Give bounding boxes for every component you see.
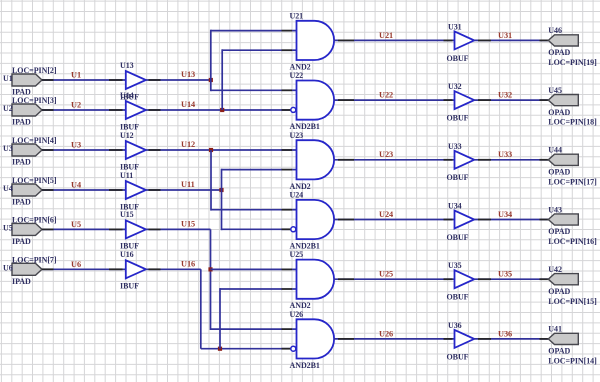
svg-text:IPAD: IPAD [12,277,31,286]
svg-text:OBUF: OBUF [447,173,469,182]
svg-text:U23: U23 [290,131,304,140]
svg-text:IPAD: IPAD [12,118,31,127]
svg-text:U11: U11 [120,171,133,180]
svg-text:OBUF: OBUF [447,233,469,242]
svg-text:U2: U2 [71,101,81,110]
svg-text:LOC=PIN[15]: LOC=PIN[15] [548,297,597,306]
svg-text:U31: U31 [498,31,512,40]
svg-text:LOC=PIN[2]: LOC=PIN[2] [12,66,57,75]
svg-text:IPAD: IPAD [12,158,31,167]
svg-text:OBUF: OBUF [447,54,469,63]
svg-text:AND2: AND2 [290,301,311,310]
svg-text:U21: U21 [290,11,304,20]
svg-text:U5: U5 [71,220,81,229]
svg-text:U23: U23 [379,150,393,159]
svg-text:U22: U22 [290,71,304,80]
svg-text:IBUF: IBUF [120,282,139,291]
svg-text:AND2B1: AND2B1 [290,361,320,370]
svg-text:U6: U6 [71,260,81,269]
svg-text:U13: U13 [120,61,134,70]
svg-text:LOC=PIN[7]: LOC=PIN[7] [12,256,57,265]
svg-text:U11: U11 [181,180,195,189]
svg-text:U2: U2 [3,104,13,113]
svg-text:U31: U31 [448,22,462,31]
svg-text:U45: U45 [548,86,562,95]
svg-text:U43: U43 [548,205,562,214]
svg-text:LOC=PIN[3]: LOC=PIN[3] [12,96,57,105]
svg-text:U33: U33 [448,142,462,151]
svg-text:LOC=PIN[18]: LOC=PIN[18] [548,118,597,127]
svg-text:U12: U12 [120,131,134,140]
svg-text:U21: U21 [379,31,393,40]
svg-text:LOC=PIN[17]: LOC=PIN[17] [548,177,597,186]
svg-text:U6: U6 [3,264,13,273]
svg-text:U3: U3 [71,141,81,150]
svg-text:U42: U42 [548,265,562,274]
svg-text:LOC=PIN[16]: LOC=PIN[16] [548,237,597,246]
svg-text:OPAD: OPAD [548,347,570,356]
svg-text:U3: U3 [3,144,13,153]
svg-text:AND2B1: AND2B1 [290,122,320,131]
svg-text:U15: U15 [181,219,195,228]
svg-text:U16: U16 [181,259,195,268]
svg-text:OBUF: OBUF [447,293,469,302]
svg-text:OBUF: OBUF [447,352,469,361]
svg-text:U26: U26 [379,329,393,338]
svg-text:U1: U1 [71,71,81,80]
svg-text:AND2: AND2 [290,62,311,71]
svg-text:LOC=PIN[5]: LOC=PIN[5] [12,176,57,185]
svg-text:IPAD: IPAD [12,237,31,246]
svg-text:U25: U25 [379,270,393,279]
svg-text:IPAD: IPAD [12,198,31,207]
svg-text:U15: U15 [120,210,134,219]
svg-text:OPAD: OPAD [548,108,570,117]
svg-text:OPAD: OPAD [548,227,570,236]
svg-text:AND2: AND2 [290,182,311,191]
svg-text:U36: U36 [498,329,512,338]
svg-text:U25: U25 [290,250,304,259]
svg-text:U44: U44 [548,146,562,155]
svg-text:U24: U24 [379,210,393,219]
svg-text:U26: U26 [290,310,304,319]
svg-text:U4: U4 [3,184,13,193]
svg-text:U14: U14 [120,91,134,100]
svg-text:U22: U22 [379,91,393,100]
svg-text:U32: U32 [448,82,462,91]
svg-text:U24: U24 [290,191,304,200]
svg-text:U35: U35 [498,270,512,279]
svg-text:U16: U16 [120,250,134,259]
svg-text:OPAD: OPAD [548,168,570,177]
svg-text:U35: U35 [448,261,462,270]
svg-text:LOC=PIN[19]: LOC=PIN[19] [548,58,597,67]
svg-text:U12: U12 [181,140,195,149]
svg-text:U46: U46 [548,26,562,35]
svg-text:U1: U1 [3,74,13,83]
svg-text:U5: U5 [3,224,13,233]
svg-text:OBUF: OBUF [447,114,469,123]
svg-text:U33: U33 [498,150,512,159]
svg-text:U34: U34 [448,202,462,211]
svg-text:U13: U13 [181,70,195,79]
svg-text:U34: U34 [498,210,512,219]
svg-text:OPAD: OPAD [548,48,570,57]
svg-text:U32: U32 [498,91,512,100]
svg-text:LOC=PIN[6]: LOC=PIN[6] [12,216,57,225]
svg-text:LOC=PIN[14]: LOC=PIN[14] [548,357,597,366]
svg-text:U4: U4 [71,181,81,190]
svg-text:U14: U14 [181,100,195,109]
svg-text:U41: U41 [548,325,562,334]
svg-text:U36: U36 [448,321,462,330]
svg-text:AND2B1: AND2B1 [290,242,320,251]
svg-text:OPAD: OPAD [548,287,570,296]
svg-text:LOC=PIN[4]: LOC=PIN[4] [12,136,57,145]
